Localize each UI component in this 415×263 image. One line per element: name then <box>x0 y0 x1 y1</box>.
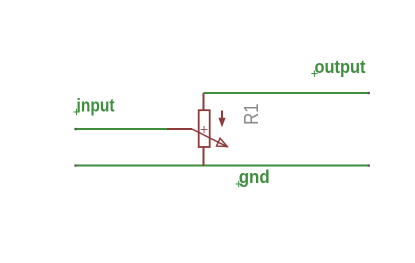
potentiometer R1 wiper arrowhead <box>217 138 228 146</box>
svg-text:R1: R1 <box>241 103 263 125</box>
potentiometer R1 adjustment arrow shaft <box>221 111 223 125</box>
potentiometer R1 top pin <box>203 93 205 110</box>
dangling end marker gnd wire right <box>368 164 370 166</box>
svg-text:output: output <box>315 57 366 77</box>
origin cross of label input <box>73 109 79 115</box>
svg-text:gnd: gnd <box>239 167 270 187</box>
wire input net <box>75 128 167 130</box>
wire gnd net (bottom) <box>75 165 369 167</box>
potentiometer R1 adjustment arrow head <box>218 118 225 128</box>
potentiometer R1 origin cross <box>201 126 208 133</box>
potentiometer R1 body <box>199 110 210 147</box>
dangling end marker input wire left <box>74 128 76 130</box>
origin cross of label output <box>311 70 317 76</box>
potentiometer R1 bottom pin <box>203 147 205 166</box>
dangling end marker output wire right <box>368 92 370 94</box>
potentiometer R1 wiper diagonal <box>192 129 228 147</box>
origin cross of label gnd <box>236 181 242 187</box>
potentiometer R1 wiper pin <box>167 128 192 130</box>
wire output net (top) <box>204 92 370 94</box>
svg-text:input: input <box>77 95 115 115</box>
dangling end marker gnd wire left <box>74 164 76 166</box>
